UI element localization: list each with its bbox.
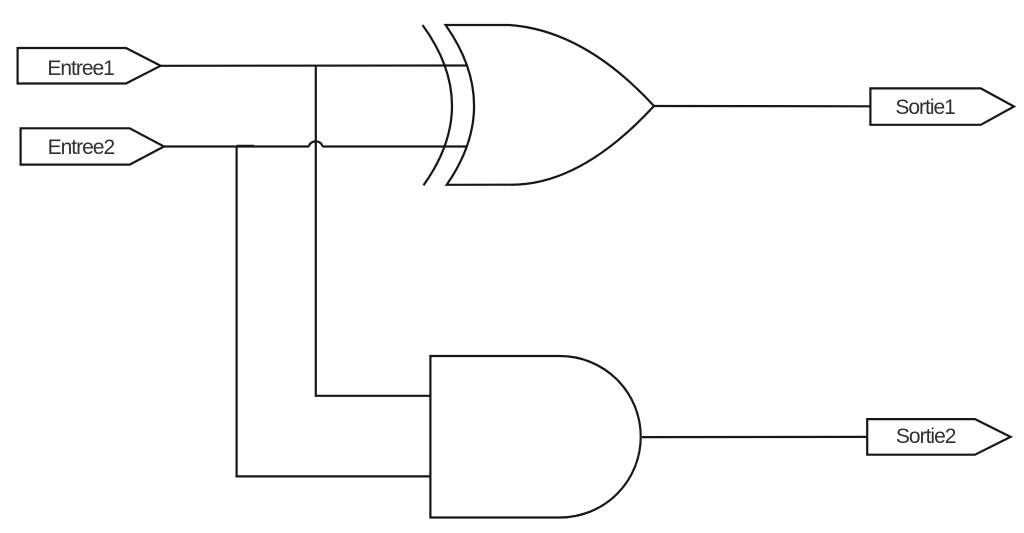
wire hop over vertical xyxy=(309,141,322,146)
output flag Sortie1 xyxy=(870,88,1014,124)
wire junction artifact at node B xyxy=(237,145,254,147)
XOR gate U1 body xyxy=(446,25,654,185)
wire hop to XOR input B xyxy=(322,145,467,147)
svg-text:Sortie2: Sortie2 xyxy=(896,425,956,448)
wire branch vertical from Entree1 down to AND input A xyxy=(316,66,431,396)
wire Entree1 to XOR input A xyxy=(161,64,467,67)
XOR gate U1 input arc xyxy=(423,25,453,185)
input flag Entree1 xyxy=(18,48,161,84)
svg-text:Entree1: Entree1 xyxy=(47,57,114,80)
output flag Sortie2 xyxy=(867,419,1010,455)
input flag Entree2 xyxy=(21,128,164,164)
wire branch vertical from Entree2 down to AND input B xyxy=(237,147,431,477)
wire XOR output to Sortie1 xyxy=(654,105,870,108)
wire Entree2 to hop xyxy=(164,145,309,147)
svg-text:Entree2: Entree2 xyxy=(48,136,115,159)
AND gate U2 body xyxy=(430,356,640,518)
wire AND output to Sortie2 xyxy=(642,436,867,438)
svg-text:Sortie1: Sortie1 xyxy=(895,96,955,119)
